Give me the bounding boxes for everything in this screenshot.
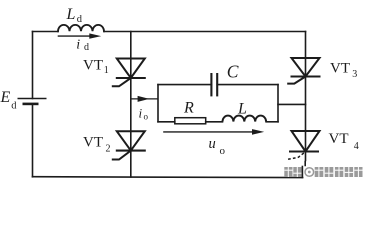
battery Ed (18, 99, 47, 104)
battery positive plate (18, 98, 47, 100)
wire left rail lower (battery to bottom) (32, 104, 34, 177)
VT3 anode triangle (292, 58, 320, 77)
VT2 cathode bar (116, 150, 146, 152)
wire io: VT rail to tank (131, 98, 158, 100)
wire R to L (206, 121, 223, 123)
thyristor VT3 (287, 58, 320, 84)
wire left rail upper (to battery) (32, 32, 34, 99)
wire tank left edge (157, 85, 159, 122)
capacitor C left plate (210, 73, 212, 96)
svg-text:i: i (139, 106, 143, 121)
uo arrow shaft (163, 131, 255, 133)
resistor R box (175, 118, 206, 124)
wire tank to right rail (278, 103, 306, 105)
svg-text:2: 2 (106, 144, 111, 155)
svg-text:C: C (227, 61, 239, 81)
wire top: inductor to right rail (104, 31, 306, 33)
VT4 cathode bar (289, 150, 319, 152)
label io (139, 106, 149, 122)
wire bottom corner stub (301, 167, 303, 178)
VT4 gate lead (dashed) (287, 153, 304, 160)
VT3 gate lead (287, 77, 305, 84)
svg-text:d: d (77, 14, 83, 25)
svg-text:4: 4 (354, 141, 359, 152)
wire top branch right of C (217, 84, 278, 86)
watermark glyph blobs (284, 167, 362, 177)
svg-text:i: i (76, 38, 80, 53)
VT4 anode triangle (292, 131, 320, 152)
svg-text:o: o (144, 112, 149, 122)
svg-text:R: R (183, 99, 194, 116)
svg-text:o: o (220, 145, 226, 157)
capacitor C plates (211, 73, 217, 96)
svg-text:L: L (66, 6, 76, 23)
svg-text:VT: VT (83, 135, 103, 151)
VT2 gate lead (112, 151, 131, 160)
label Ed (0, 89, 17, 112)
id arrow head (89, 33, 101, 38)
current arrow io on wire to tank (131, 96, 158, 102)
wire middle rail (130, 32, 132, 177)
current arrow id (58, 33, 101, 38)
inductor Ld coil (58, 25, 104, 31)
svg-text:u: u (209, 136, 216, 152)
label VT3 (330, 60, 357, 80)
load tank rectangle wires (158, 85, 306, 122)
wire bottom (33, 176, 303, 179)
label Ld (66, 6, 83, 25)
thyristor VT1 (112, 59, 146, 87)
svg-text:VT: VT (83, 57, 103, 73)
VT1 gate lead (112, 78, 131, 86)
label VT4 (329, 131, 359, 152)
svg-text:VT: VT (330, 60, 350, 76)
wire top: left corner to inductor (33, 31, 59, 33)
svg-text:VT: VT (329, 131, 349, 147)
id arrow shaft (58, 35, 93, 37)
VT2 anode triangle (117, 131, 145, 150)
label id (76, 38, 89, 54)
inductor L coil (223, 116, 267, 122)
svg-text:d: d (84, 42, 89, 53)
svg-text:E: E (0, 89, 11, 106)
wire bottom branch to R (158, 121, 175, 123)
uo arrow head (252, 129, 264, 135)
wire L to right edge (266, 121, 278, 123)
VT3 cathode bar (291, 75, 321, 77)
battery negative plate (23, 103, 39, 106)
voltage arrow uo (163, 129, 264, 135)
VT1 cathode bar (116, 77, 146, 79)
wire right rail dashed tail (304, 162, 306, 166)
thyristor VT2 (112, 131, 146, 159)
wire right rail (305, 32, 307, 161)
svg-text:1: 1 (104, 65, 109, 76)
label uo (209, 136, 226, 157)
thyristor VT4 (287, 131, 320, 160)
label VT1 (83, 57, 109, 76)
VT1 anode triangle (117, 59, 145, 79)
wire tank right edge (277, 85, 279, 122)
wire top branch left of C (158, 84, 211, 86)
capacitor C right plate (216, 73, 218, 96)
watermark stroke texture (284, 167, 362, 177)
svg-text:L: L (237, 100, 247, 117)
svg-text:d: d (11, 101, 17, 112)
svg-text:3: 3 (352, 69, 357, 80)
io arrow head (138, 96, 150, 102)
label VT2 (83, 135, 111, 155)
